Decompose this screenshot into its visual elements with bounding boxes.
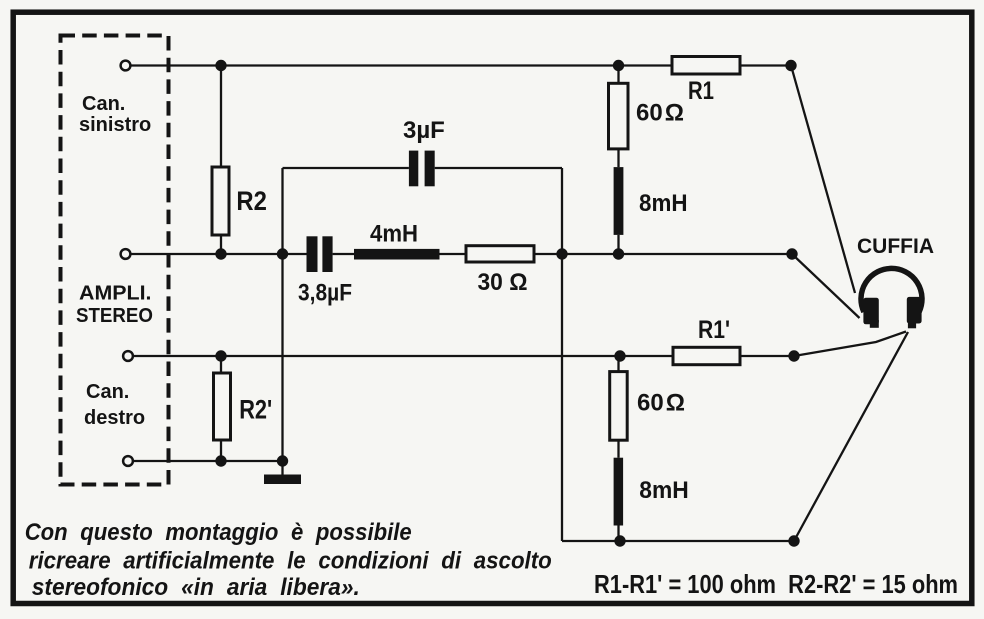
svg-text:30 Ω: 30 Ω <box>478 269 528 296</box>
node junction: line B / middle rail <box>556 248 567 259</box>
resistor 60 ohm (top) <box>617 66 619 168</box>
inductor 8mH (top) <box>614 167 624 235</box>
svg-text:3,8µF: 3,8µF <box>298 280 352 307</box>
svg-text:60 Ω: 60 Ω <box>636 100 684 127</box>
label Can. sinistro <box>79 93 151 136</box>
node junction: R2' top <box>215 350 226 361</box>
node junction: R2 bottom <box>215 248 226 259</box>
wire: right channel rail <box>133 355 794 357</box>
inductor 8mH (bottom) <box>614 458 624 526</box>
wire: top rail (left channel hot) <box>131 64 791 66</box>
svg-text:8mH: 8mH <box>639 190 688 217</box>
terminal: left channel + <box>121 61 131 71</box>
svg-text:4mH: 4mH <box>370 221 418 248</box>
capacitor 3uF <box>403 117 445 186</box>
wire: bottom rail <box>562 540 794 542</box>
svg-text:R2': R2' <box>239 395 272 425</box>
svg-text:R2: R2 <box>236 186 267 216</box>
node junction: 60ohm top rail <box>613 60 624 71</box>
resistor 60 ohm (bottom) <box>617 356 619 458</box>
label Can. destro <box>84 381 145 429</box>
ground <box>281 461 283 475</box>
node junction: R2' bottom <box>215 455 226 466</box>
resistor R2 <box>220 66 222 255</box>
headphone CUFFIA icon <box>861 268 922 328</box>
node junction: branch/ground row <box>277 455 288 466</box>
node junction: R1' input <box>614 350 625 361</box>
svg-text:stereofonico «in aria libera».: stereofonico «in aria libera». <box>32 574 360 601</box>
terminal: right channel + <box>123 351 133 361</box>
node junction: R1 output <box>785 60 796 71</box>
wire: middle rail (common) <box>131 253 792 255</box>
node junction: R2 top <box>215 60 226 71</box>
svg-text:Can.: Can. <box>82 93 125 115</box>
node junction: bottom rail right end <box>788 535 799 546</box>
caption text <box>25 519 552 601</box>
wire: diagonal common to headphone left <box>792 254 860 318</box>
wire: diagonal bottom rail to headphone right <box>794 332 908 541</box>
wire: 3uF branch top <box>283 167 563 169</box>
node junction: R1' output <box>788 350 799 361</box>
wire: diagonal R1 to headphone left <box>791 66 855 294</box>
node junction: middle rail right end <box>786 248 797 259</box>
label AMPLI. STEREO <box>76 283 153 328</box>
svg-text:destro: destro <box>84 407 145 429</box>
node junction: branch/middle rail <box>277 248 288 259</box>
terminal: left channel - <box>121 249 131 259</box>
svg-text:CUFFIA: CUFFIA <box>857 235 934 258</box>
node junction: 8mH bottom rail <box>614 535 625 546</box>
svg-text:sinistro: sinistro <box>79 114 151 136</box>
resistor R1' <box>673 347 740 364</box>
svg-text:R1: R1 <box>688 77 714 105</box>
svg-text:R1': R1' <box>698 316 730 344</box>
svg-text:R1-R1' = 100 ohm R2-R2' = 15: R1-R1' = 100 ohm R2-R2' = 15 ohm <box>594 569 958 599</box>
capacitor 3.8uF <box>298 236 352 306</box>
terminal: right channel - <box>123 456 133 466</box>
wire: common branch vertical (node A) <box>281 168 283 461</box>
svg-text:8mH: 8mH <box>639 477 689 504</box>
svg-text:ricreare artificialmente le co: ricreare artificialmente le condizioni d… <box>29 548 552 575</box>
svg-text:STEREO: STEREO <box>76 305 153 327</box>
svg-text:3µF: 3µF <box>403 117 445 144</box>
wire: common vertical line B <box>561 168 563 541</box>
wire: R1' to headphone right <box>794 332 906 357</box>
resistor 30 ohm <box>466 246 534 296</box>
inductor 4mH <box>354 221 440 260</box>
resistor R1 <box>672 57 740 75</box>
svg-text:Can.: Can. <box>86 381 129 403</box>
svg-text:Con questo montaggio è possibi: Con questo montaggio è possibile <box>25 519 412 546</box>
node junction: 8mH middle rail <box>613 248 624 259</box>
svg-text:60 Ω: 60 Ω <box>637 390 685 417</box>
wire: ground terminal row <box>133 460 283 462</box>
resistor R2' <box>220 356 222 461</box>
svg-text:AMPLI.: AMPLI. <box>79 283 152 305</box>
amplifier dashed box <box>61 36 169 485</box>
